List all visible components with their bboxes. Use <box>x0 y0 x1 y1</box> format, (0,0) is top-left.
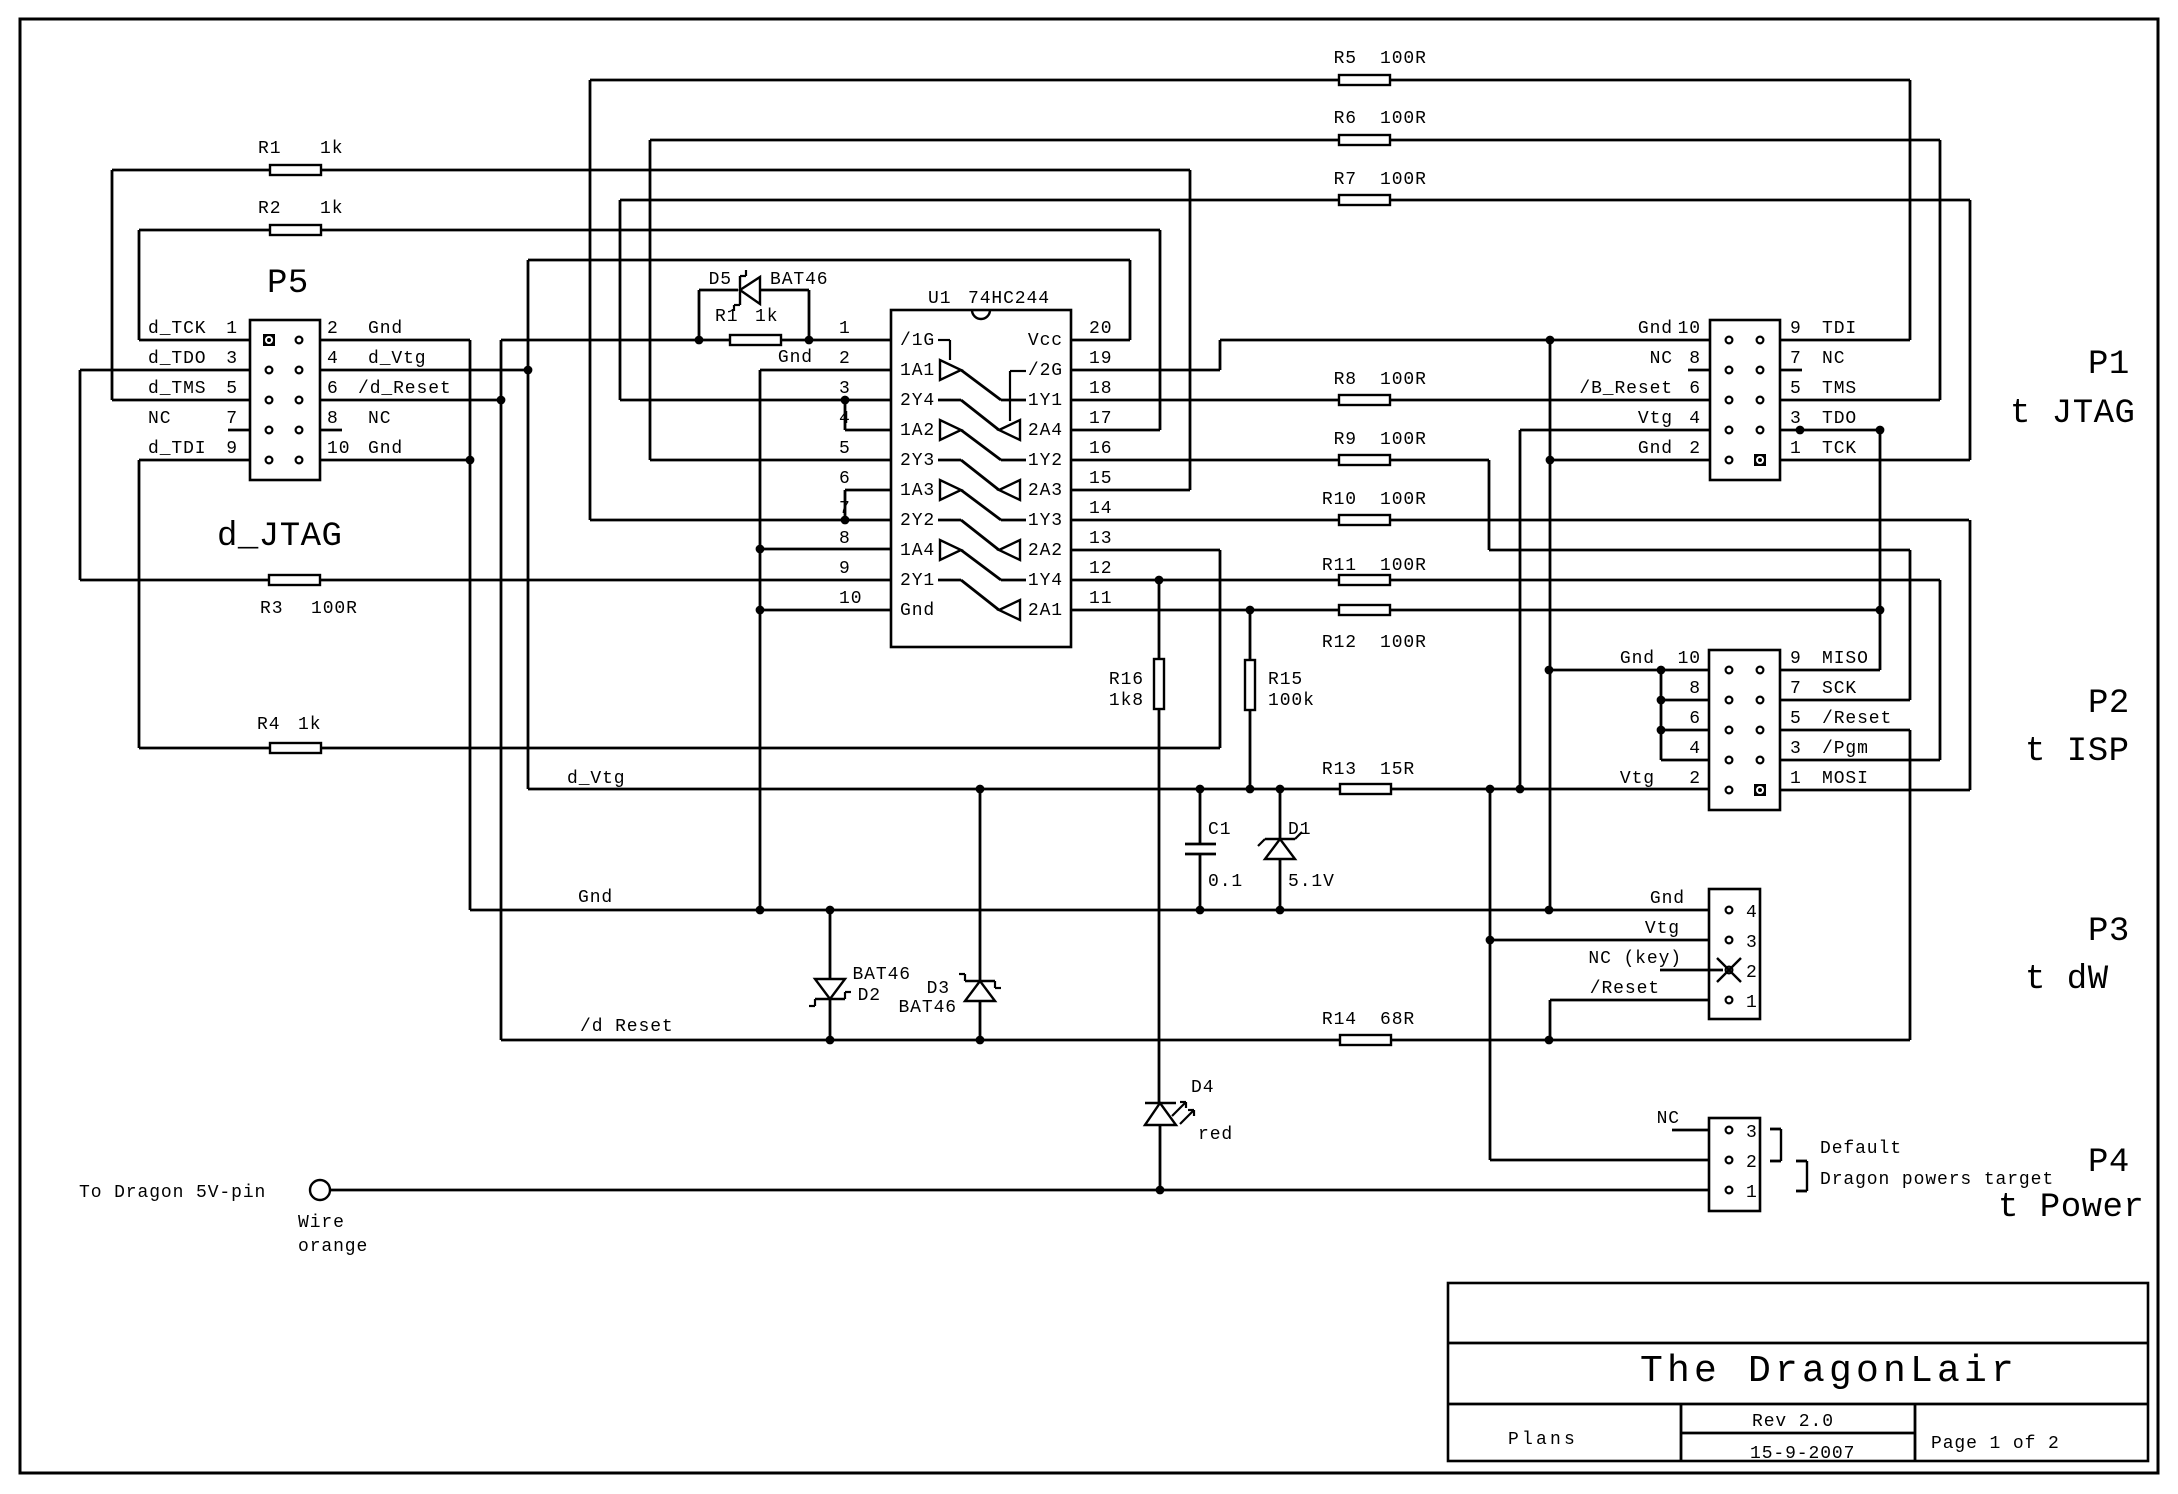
P2 pin3 label "3 /Pgm" <box>1790 739 1869 759</box>
U1 internal label "1Y3" <box>1028 511 1063 531</box>
wire: Vtg riser x=1490 to P3 pin3 and P4 pin2 <box>1486 790 1709 1160</box>
svg-text:R3: R3 <box>260 599 283 619</box>
svg-text:1: 1 <box>839 319 851 339</box>
svg-text:6: 6 <box>839 469 851 489</box>
svg-text:TDO: TDO <box>1822 409 1857 429</box>
wire: R7 riser to P1 pin1 TCK <box>1780 200 1970 460</box>
wire: Gnd rail (y=910) <box>470 906 1709 915</box>
wire: R5 riser to P1 pin9 TDI <box>1780 80 1910 340</box>
capacitor C1 (0.1) <box>1185 789 1216 910</box>
svg-text:Gnd: Gnd <box>900 601 935 621</box>
U1 internal label "Gnd" <box>900 601 935 621</box>
net label "d_Vtg" <box>567 769 626 789</box>
svg-text:R16: R16 <box>1109 670 1144 690</box>
U1 pin 12 number <box>1089 559 1112 579</box>
wire: d_Vtg vertical x=528 <box>527 260 530 789</box>
svg-text:P5: P5 <box>267 265 309 303</box>
P4 pin3 number <box>1746 1123 1758 1143</box>
U1 buffer 2A1 triangle and diagonal <box>938 580 1020 620</box>
svg-text:Plans: Plans <box>1508 1430 1578 1450</box>
P1 pin7 label "7 NC" <box>1790 349 1845 369</box>
label "U1 74HC244" <box>928 289 1050 309</box>
svg-text:2: 2 <box>1746 963 1758 983</box>
svg-text:R14: R14 <box>1322 1010 1357 1030</box>
svg-text:1: 1 <box>1746 993 1758 1013</box>
svg-text:12: 12 <box>1089 559 1112 579</box>
svg-text:2A3: 2A3 <box>1028 481 1063 501</box>
svg-text:15-9-2007: 15-9-2007 <box>1750 1444 1855 1464</box>
svg-text:R1: R1 <box>258 139 281 159</box>
U1 buffer 2A4 triangle and diagonal <box>938 400 1020 440</box>
svg-text:5.1V: 5.1V <box>1288 872 1335 892</box>
wire: U1 pin3-pin4 bridge <box>841 396 891 430</box>
U1 internal label "1Y2" <box>1028 451 1063 471</box>
svg-text:6: 6 <box>1689 379 1701 399</box>
svg-text:1Y1: 1Y1 <box>1028 391 1063 411</box>
svg-text:Vcc: Vcc <box>1028 331 1063 351</box>
U1 pin 3 number <box>839 379 851 399</box>
svg-text:0.1: 0.1 <box>1208 872 1243 892</box>
net label "/d Reset" <box>580 1017 674 1037</box>
svg-text:4: 4 <box>1746 903 1758 923</box>
U1 buffer 1A1 triangle and diagonal <box>940 360 1026 400</box>
svg-text:7: 7 <box>226 409 238 429</box>
svg-text:Vtg: Vtg <box>1638 409 1673 429</box>
svg-text:NC: NC <box>368 409 391 429</box>
P3 pin3 label "Vtg 3" <box>1645 919 1758 953</box>
svg-text:5: 5 <box>1790 709 1802 729</box>
svg-text:100R: 100R <box>1380 49 1427 69</box>
P5 pin 6 label "6 /d_Reset" <box>327 379 452 399</box>
title field "Page 1 of 2" <box>1931 1434 2060 1454</box>
resistor R8 (100R, /B_Reset line) <box>1071 395 1710 405</box>
U1 /1G enable bracket <box>938 340 950 360</box>
P5 pin 8 label "8 NC" <box>327 409 391 429</box>
resistor R11 (100R, /Pgm line) <box>1071 575 1940 585</box>
P3 pin2 label "NC (key) 2" <box>1588 949 1757 983</box>
U1 internal label "1A2" <box>900 421 935 441</box>
svg-text:2Y1: 2Y1 <box>900 571 935 591</box>
wire: P5 pins 2,10 Gnd down to Gnd rail (x=470) <box>320 340 474 910</box>
P1 pin2 label "Gnd 2" <box>1638 439 1701 459</box>
svg-text:100k: 100k <box>1268 691 1315 711</box>
svg-text:/Reset: /Reset <box>1822 709 1892 729</box>
label "R7 100R" <box>1334 170 1427 190</box>
svg-text:15: 15 <box>1089 469 1112 489</box>
label "D4 red" <box>1191 1078 1233 1145</box>
svg-text:1: 1 <box>1790 769 1802 789</box>
U1 internal label "2A3" <box>1028 481 1063 501</box>
svg-text:2: 2 <box>839 349 851 369</box>
U1 internal label "/2G" <box>1028 361 1063 381</box>
label "R1 1k" (D5 parallel) <box>715 307 778 327</box>
label "t dW" <box>2025 961 2109 999</box>
P5 pin 1 label "d_TCK 1" <box>148 319 238 339</box>
resistor R9 (100R, SCK line) <box>1071 455 1489 465</box>
wire: /d Reset rail (y=1040) <box>501 1036 1910 1045</box>
wire: U1 pin19 /2G to Gnd row <box>1071 340 1220 370</box>
label "R14 68R" <box>1322 1010 1415 1030</box>
svg-text:red: red <box>1198 1125 1233 1145</box>
P5 pin 3 label "d_TDO 3" <box>148 349 238 369</box>
title field "Plans" <box>1508 1430 1578 1450</box>
svg-text:68R: 68R <box>1380 1010 1415 1030</box>
label "R12 100R" <box>1322 633 1427 653</box>
svg-text:100R: 100R <box>1380 109 1427 129</box>
svg-text:2A1: 2A1 <box>1028 601 1063 621</box>
U1 internal label "1A1" <box>900 361 935 381</box>
label "D2 BAT46" <box>852 965 911 1006</box>
label "R6 100R" <box>1334 109 1427 129</box>
svg-text:5: 5 <box>839 439 851 459</box>
svg-text:P4: P4 <box>2088 1144 2130 1182</box>
label "R9 100R" <box>1334 430 1427 450</box>
svg-text:R6: R6 <box>1334 109 1357 129</box>
label "t ISP" <box>2025 733 2130 771</box>
svg-text:Vtg: Vtg <box>1620 769 1655 789</box>
svg-text:2: 2 <box>1689 439 1701 459</box>
svg-text:D2: D2 <box>858 986 881 1006</box>
svg-text:d_Vtg: d_Vtg <box>567 769 626 789</box>
U1 pin 15 number <box>1089 469 1112 489</box>
svg-text:100R: 100R <box>1380 556 1427 576</box>
P2 pin2 label "Vtg 2" <box>1620 769 1701 789</box>
svg-text:d_TMS: d_TMS <box>148 379 207 399</box>
svg-text:NC: NC <box>1822 349 1845 369</box>
P5 pin 2 label "2 Gnd" <box>327 319 403 339</box>
resistor R2 (1k, d_TCK line) <box>139 225 1160 235</box>
P5 NC pin stubs (pins 7,8) <box>228 429 342 432</box>
svg-text:U1: U1 <box>928 289 951 309</box>
wire: /d_Reset vertical x=501 <box>500 340 503 1040</box>
svg-text:The DragonLair: The DragonLair <box>1640 1350 2018 1393</box>
U1 pin 14 number <box>1089 499 1112 519</box>
svg-text:8: 8 <box>839 529 851 549</box>
svg-text:8: 8 <box>1689 679 1701 699</box>
label "R1 1k" <box>258 139 343 159</box>
label "R3 100R" <box>260 599 358 619</box>
wire: R1 to U1 pin15 2A3 (riser x=1190) <box>1071 170 1190 490</box>
svg-text:/B_Reset: /B_Reset <box>1579 379 1673 399</box>
svg-text:18: 18 <box>1089 379 1112 399</box>
label "Default" <box>1820 1139 1902 1159</box>
net name label "d_JTAG" <box>217 518 342 556</box>
U1 internal label "2A4" <box>1028 421 1063 441</box>
P2 pin5 label "5 /Reset" <box>1790 709 1892 729</box>
U1 pin 20 number <box>1089 319 1112 339</box>
wire: R4 to U1 pin13 2A2 (riser x=1220) <box>1071 550 1220 748</box>
svg-text:2A4: 2A4 <box>1028 421 1063 441</box>
svg-text:R7: R7 <box>1334 170 1357 190</box>
resistor R16 (1k8, LED series) <box>1154 580 1164 1103</box>
svg-text:/1G: /1G <box>900 331 935 351</box>
svg-text:R2: R2 <box>258 199 281 219</box>
svg-text:10: 10 <box>839 589 862 609</box>
LED D4 (red) <box>1145 1102 1194 1190</box>
svg-text:3: 3 <box>226 349 238 369</box>
svg-text:100R: 100R <box>1380 370 1427 390</box>
svg-text:2Y4: 2Y4 <box>900 391 935 411</box>
P1 pin9 label "9 TDI" <box>1790 319 1857 339</box>
svg-text:/Reset: /Reset <box>1590 979 1660 999</box>
P5 pin 7 label "NC 7" <box>148 409 238 429</box>
U1 internal label "2Y4" <box>900 391 935 411</box>
resistor R15 (100k) <box>1245 610 1255 789</box>
svg-text:4: 4 <box>1689 409 1701 429</box>
P1 pin1 label "1 TCK" <box>1790 439 1857 459</box>
U1 buffer 2A2 triangle and diagonal <box>938 520 1020 560</box>
svg-text:d_TDI: d_TDI <box>148 439 207 459</box>
svg-text:R4: R4 <box>257 715 280 735</box>
U1 pin 2 number <box>839 349 851 369</box>
svg-text:9: 9 <box>226 439 238 459</box>
resistor R14 (68R, /d Reset line) <box>1340 1035 1391 1045</box>
svg-text:BAT46: BAT46 <box>852 965 911 985</box>
svg-text:t dW: t dW <box>2025 961 2109 999</box>
wire: /d Reset to P2 pin5 /Reset (riser x=1910) <box>1780 730 1910 1040</box>
connector P4 (t Power) <box>1709 1118 1760 1211</box>
title block <box>1448 1283 2148 1461</box>
P2 pin8 number <box>1689 679 1701 699</box>
svg-text:1k: 1k <box>320 199 343 219</box>
svg-text:Rev 2.0: Rev 2.0 <box>1752 1412 1834 1432</box>
label "P4" <box>2088 1144 2130 1182</box>
P3 pin1 label "/Reset 1" <box>1590 979 1758 1013</box>
resistor R3 (100R, d_TDO line) <box>80 575 891 585</box>
U1 buffer 1A2 triangle and diagonal <box>940 420 1026 460</box>
label "R11 100R" <box>1322 556 1427 576</box>
wire: Gnd vertical x=1550 (P1 pin2, P2 pin10, Gnd rail) <box>1546 340 1710 910</box>
wire: P5 pin9 d_TDI down to R4 row <box>139 460 250 748</box>
label "Dragon powers target" <box>1820 1170 2054 1190</box>
U1 internal label "2Y2" <box>900 511 935 531</box>
wire: U1 pin6-pin7 bridge <box>841 490 891 524</box>
U1 pin 11 number <box>1089 589 1112 609</box>
svg-text:7: 7 <box>1790 349 1802 369</box>
U1 pin 17 number <box>1089 409 1112 429</box>
svg-text:1Y4: 1Y4 <box>1028 571 1063 591</box>
P1 pin6 label "/B_Reset 6" <box>1579 379 1701 399</box>
svg-text:D4: D4 <box>1191 1078 1214 1098</box>
svg-text:R15: R15 <box>1268 670 1303 690</box>
svg-text:5: 5 <box>226 379 238 399</box>
P4 pin1 number <box>1746 1183 1758 1203</box>
U1 pin 18 number <box>1089 379 1112 399</box>
U1 internal label "1Y4" <box>1028 571 1063 591</box>
svg-text:d_TCK: d_TCK <box>148 319 207 339</box>
U1 pin 4 number <box>839 409 851 429</box>
connector P2 (t ISP) <box>1709 650 1780 810</box>
svg-text:1A2: 1A2 <box>900 421 935 441</box>
svg-text:4: 4 <box>1689 739 1701 759</box>
svg-text:2: 2 <box>1689 769 1701 789</box>
svg-text:d_TDO: d_TDO <box>148 349 207 369</box>
resistor R6 (100R, TMS line) <box>650 135 1940 460</box>
P2 pin1 label "1 MOSI" <box>1790 769 1869 789</box>
label "R16 1k8" <box>1109 670 1144 711</box>
resistor R1 (1k, d_TMS line) <box>112 165 1190 175</box>
U1 /2G enable bracket <box>1010 371 1026 421</box>
svg-text:P3: P3 <box>2088 913 2130 951</box>
svg-text:1k8: 1k8 <box>1109 691 1144 711</box>
wire: U1 pins 2,8,10 to Gnd rail (x=760) <box>756 370 891 914</box>
label "Wire orange" <box>298 1213 368 1257</box>
U1 internal label "1A4" <box>900 541 935 561</box>
resistor R4 (1k, d_TDI line) <box>139 743 1220 753</box>
svg-text:3: 3 <box>1790 739 1802 759</box>
svg-text:1Y2: 1Y2 <box>1028 451 1063 471</box>
svg-text:2: 2 <box>327 319 339 339</box>
svg-text:4: 4 <box>327 349 339 369</box>
label "R13 15R" <box>1322 760 1415 780</box>
svg-text:R12: R12 <box>1322 633 1357 653</box>
svg-text:R13: R13 <box>1322 760 1357 780</box>
svg-text:8: 8 <box>1689 349 1701 369</box>
svg-text:9: 9 <box>1790 649 1802 669</box>
svg-text:NC: NC <box>1650 349 1673 369</box>
label "P3" <box>2088 913 2130 951</box>
P2 pin7 label "7 SCK" <box>1790 679 1857 699</box>
svg-text:1Y3: 1Y3 <box>1028 511 1063 531</box>
label "P2" <box>2088 685 2130 723</box>
svg-text:100R: 100R <box>1380 430 1427 450</box>
svg-text:Gnd: Gnd <box>578 888 613 908</box>
svg-text:NC: NC <box>1657 1109 1680 1129</box>
svg-text:2A2: 2A2 <box>1028 541 1063 561</box>
U1 pin 19 number <box>1089 349 1112 369</box>
wire: R10 to P2 pin1 MOSI <box>1780 520 1970 790</box>
P4 pin2 number <box>1746 1153 1758 1173</box>
svg-text:Vtg: Vtg <box>1645 919 1680 939</box>
P2 pin10 label "Gnd 10" <box>1620 649 1701 669</box>
U1 pin 5 number <box>839 439 851 459</box>
resistor R7 (100R, TCK line) <box>620 195 1970 400</box>
svg-text:MISO: MISO <box>1822 649 1869 669</box>
U1 internal label "2A1" <box>1028 601 1063 621</box>
wire: R2 to U1 pin17 2A4 (riser x=1160) <box>1071 230 1160 430</box>
svg-text:TDI: TDI <box>1822 319 1857 339</box>
svg-text:Default: Default <box>1820 1139 1902 1159</box>
svg-text:5: 5 <box>1790 379 1802 399</box>
svg-text:9: 9 <box>839 559 851 579</box>
title field "Rev 2.0" <box>1752 1412 1834 1432</box>
svg-text:20: 20 <box>1089 319 1112 339</box>
wire: P1 pin4 Vtg riser x=1520 <box>1520 430 1710 790</box>
svg-text:/Pgm: /Pgm <box>1822 739 1869 759</box>
svg-text:8: 8 <box>327 409 339 429</box>
U1 internal label "1Y1" <box>1028 391 1063 411</box>
svg-text:13: 13 <box>1089 529 1112 549</box>
svg-text:11: 11 <box>1089 589 1112 609</box>
resistor R13 (15R, Vtg line) <box>1340 784 1391 794</box>
connector P3 (t dW) <box>1709 889 1760 1019</box>
net label "Gnd" (U1 pin2) <box>778 348 813 368</box>
svg-text:Gnd: Gnd <box>368 319 403 339</box>
label "t Power" <box>1998 1189 2144 1227</box>
U1 buffer 2A3 triangle and diagonal <box>938 460 1020 500</box>
wire: P5 pin5 d_TMS to R1 column <box>112 170 250 400</box>
label "D1 5.1V" <box>1288 820 1335 892</box>
resistor R1 (1k, parallel with D5) <box>730 335 781 345</box>
U1 internal label "Vcc" <box>1028 331 1063 351</box>
P1 pin5 label "5 TMS" <box>1790 379 1857 399</box>
svg-text:1A1: 1A1 <box>900 361 935 381</box>
resistor R10 (100R, MOSI line) <box>1071 515 1969 525</box>
svg-text:BAT46: BAT46 <box>770 270 829 290</box>
svg-text:To Dragon 5V-pin: To Dragon 5V-pin <box>79 1183 266 1203</box>
wire: d_Vtg / Vtg row (y=789) through R13 <box>528 785 1709 794</box>
svg-text:9: 9 <box>1790 319 1802 339</box>
zener diode D1 (5.1V) <box>1258 789 1302 910</box>
bracket: P4 pins 2-1 Dragon powers target <box>1796 1161 1807 1191</box>
net label "Gnd" <box>578 888 613 908</box>
U1 pin 1 number <box>839 319 851 339</box>
P2 pin6 number <box>1689 709 1701 729</box>
U1 internal label "2Y3" <box>900 451 935 471</box>
svg-text:R5: R5 <box>1334 49 1357 69</box>
svg-text:D3: D3 <box>927 979 950 999</box>
svg-text:/d Reset: /d Reset <box>580 1017 674 1037</box>
svg-text:1: 1 <box>226 319 238 339</box>
svg-text:P1: P1 <box>2088 346 2130 384</box>
svg-text:1: 1 <box>1790 439 1802 459</box>
svg-text:100R: 100R <box>311 599 358 619</box>
label "t JTAG" <box>2010 395 2135 433</box>
svg-text:10: 10 <box>1678 649 1701 669</box>
wire: /d_Reset to U1 pin1 /1G (row 340) <box>501 336 891 345</box>
diode D5 (BAT46 schottky) <box>699 270 809 340</box>
terminal: To Dragon 5V-pin <box>310 1180 330 1200</box>
svg-text:NC (key): NC (key) <box>1588 949 1682 969</box>
svg-text:2: 2 <box>1746 1153 1758 1173</box>
P2 pin9 label "9 MISO" <box>1790 649 1869 669</box>
diode D3 (BAT46) <box>959 789 1001 1040</box>
resistor R12 (100R, TDO/MISO line) <box>1071 605 1884 615</box>
wire: U1 pin20 Vcc loop to d_Vtg column <box>528 260 1130 340</box>
label "P5" <box>267 265 309 303</box>
P5 pin 5 label "d_TMS 5" <box>148 379 238 399</box>
U1 pin 10 number <box>839 589 862 609</box>
wire: P5 pin6 /d_Reset to x=501 column <box>320 396 505 405</box>
svg-text:/d_Reset: /d_Reset <box>358 379 452 399</box>
svg-text:2Y2: 2Y2 <box>900 511 935 531</box>
wire: 5V supply row to P4 pin1 <box>330 1186 1709 1195</box>
label "P1" <box>2088 346 2130 384</box>
wire: P2 pin10 Gnd <box>1545 666 1709 675</box>
P1 pin3 label "3 TDO" <box>1790 409 1857 429</box>
U1 pin 7 number <box>839 499 851 519</box>
U1 internal label "/1G" <box>900 331 935 351</box>
svg-text:1A3: 1A3 <box>900 481 935 501</box>
U1 pin 9 number <box>839 559 851 579</box>
U1 pin 6 number <box>839 469 851 489</box>
svg-text:t Power: t Power <box>1998 1189 2144 1227</box>
P1 pin8 label "NC 8" <box>1650 349 1701 369</box>
title field date "15-9-2007" <box>1750 1444 1855 1464</box>
U1 internal label "1A3" <box>900 481 935 501</box>
connector P5 (d_JTAG header) <box>250 320 320 480</box>
U1 buffer 1A4 triangle and diagonal <box>940 540 1026 580</box>
label "R15 100k" <box>1268 670 1315 711</box>
label "D3 BAT46" <box>898 979 957 1018</box>
svg-text:d_Vtg: d_Vtg <box>368 349 427 369</box>
wire: Gnd row340 (/2G and P1 pin10) <box>1220 336 1710 345</box>
svg-text:SCK: SCK <box>1822 679 1857 699</box>
svg-text:14: 14 <box>1089 499 1112 519</box>
svg-text:3: 3 <box>1746 933 1758 953</box>
svg-text:15R: 15R <box>1380 760 1415 780</box>
P5 pin 10 label "10 Gnd" <box>327 439 403 459</box>
